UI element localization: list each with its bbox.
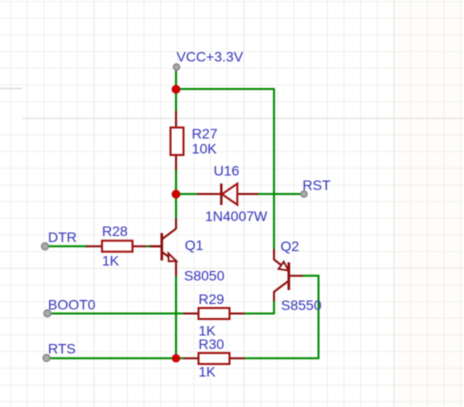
svg-text:Q1: Q1 [185, 237, 204, 253]
svg-text:R27: R27 [192, 126, 218, 142]
svg-text:VCC+3.3V: VCC+3.3V [177, 49, 244, 65]
svg-text:1K: 1K [102, 253, 120, 269]
svg-text:R30: R30 [199, 336, 225, 352]
svg-text:10K: 10K [192, 141, 218, 157]
svg-text:RTS: RTS [48, 341, 76, 357]
svg-text:BOOT0: BOOT0 [48, 297, 96, 313]
svg-text:R28: R28 [102, 223, 128, 239]
svg-text:S8050: S8050 [184, 268, 225, 284]
svg-text:U16: U16 [214, 163, 240, 179]
svg-text:1K: 1K [199, 364, 217, 380]
svg-text:R29: R29 [199, 291, 225, 307]
svg-text:DTR: DTR [48, 229, 77, 245]
svg-text:RST: RST [303, 177, 331, 193]
svg-text:1N4007W: 1N4007W [205, 208, 268, 224]
svg-text:Q2: Q2 [281, 238, 300, 254]
svg-text:S8550: S8550 [281, 297, 322, 313]
